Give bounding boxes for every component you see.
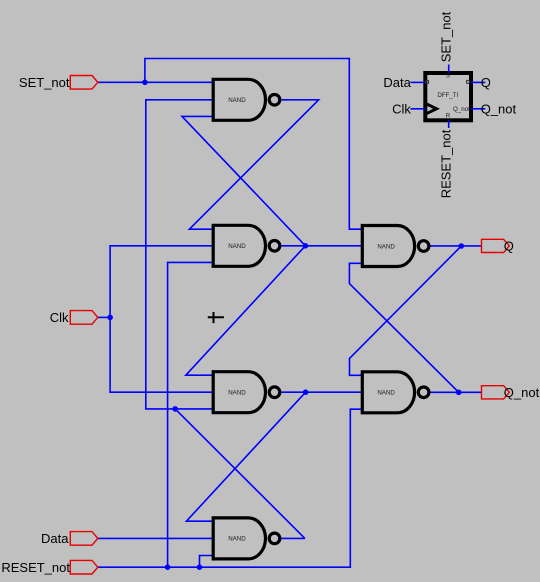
nand U4 [213, 372, 280, 413]
wire diagonal U4 output to U6 top input [186, 392, 305, 521]
dff pin S stub [446, 65, 450, 80]
node Clk [107, 315, 113, 321]
node U2 output [303, 243, 309, 249]
wire U6 output feedback riser to U1 middle input [146, 100, 213, 409]
node on U4 bottom input [172, 406, 178, 412]
svg-text:Data: Data [383, 75, 411, 90]
node on RESET_not wire left [165, 564, 171, 570]
input port SET_not [19, 75, 98, 90]
input port Data [41, 531, 98, 546]
dff label Q [481, 75, 491, 90]
node Q [459, 243, 465, 249]
svg-text:RESET_not: RESET_not [1, 560, 70, 575]
svg-text:S: S [446, 73, 450, 80]
svg-text:Clk: Clk [392, 102, 411, 117]
wire U6 output stub [281, 537, 305, 539]
wire U1 output diagonal to U2 top input [189, 100, 318, 229]
dff label SET_not vertical [438, 11, 453, 62]
wire SET_not riser up [145, 59, 362, 230]
wire U2 output to U3 middle input [281, 245, 361, 247]
dff pin R stub [446, 113, 451, 128]
node U4 output [303, 389, 309, 395]
dff clock triangle marker [425, 103, 436, 114]
dff pin D stub [411, 80, 429, 83]
wire Clk to junction [98, 316, 110, 318]
nand U1 [213, 79, 280, 120]
output port Q_not [482, 385, 540, 400]
wire Data to U6 middle input [98, 537, 213, 539]
wire SET_not to U1 top input [98, 81, 213, 83]
wire diagonal Q to U5 top input [350, 246, 462, 375]
dff pin Q_not stub [453, 106, 485, 113]
svg-text:Q_not: Q_not [481, 102, 517, 117]
svg-text:Q_not: Q_not [453, 106, 470, 113]
node on SET_not wire [142, 80, 148, 86]
nand U2 [213, 225, 280, 266]
wire U6 bottom input riser [200, 556, 214, 568]
origin cross marker [208, 312, 224, 323]
dff label RESET_not vertical [438, 129, 453, 198]
dff pin Q stub [467, 80, 486, 83]
wire U4 output to U5 middle input [281, 391, 361, 393]
input port Clk [50, 310, 98, 325]
node Q_not [456, 390, 462, 396]
output port Q [482, 239, 514, 254]
wire U3 output to port Q [430, 245, 481, 247]
svg-text:Clk: Clk [50, 310, 69, 325]
wire RESET_not to U5 bottom input [98, 409, 362, 567]
wire Clk riser [110, 246, 213, 392]
svg-text:DFF_TI: DFF_TI [437, 92, 458, 99]
nand U6 [213, 518, 280, 559]
wire U5 output to port Q_not [430, 391, 481, 393]
wire diagonal U6 output to U4 bottom input node [175, 409, 305, 539]
dff label Q_not [481, 102, 517, 117]
dff label Data [383, 75, 411, 90]
svg-text:Data: Data [41, 531, 69, 546]
input port RESET_not [1, 560, 97, 575]
svg-text:SET_not: SET_not [19, 75, 70, 90]
wire diagonal U2 output to U4 top input [186, 246, 306, 375]
wire U1 bottom input with diagonal from U2 output node [182, 116, 305, 245]
wire diagonal Q_not to U3 bottom input [349, 263, 458, 392]
svg-text:RESET_not: RESET_not [438, 129, 453, 198]
wire RESET_not riser to U2 bottom input [168, 262, 214, 567]
nand U5 [362, 372, 429, 413]
node on RESET_not wire right [197, 564, 203, 570]
svg-text:R: R [446, 113, 451, 120]
dff U7 DFF_TI symbol box [425, 73, 471, 120]
dff label Clk [392, 102, 411, 117]
nand U3 [362, 226, 429, 267]
dff pin Clk stub [411, 108, 426, 110]
svg-text:Q_not: Q_not [504, 385, 540, 400]
svg-text:Q: Q [481, 75, 491, 90]
svg-text:SET_not: SET_not [438, 11, 453, 62]
svg-text:Q: Q [504, 239, 514, 254]
